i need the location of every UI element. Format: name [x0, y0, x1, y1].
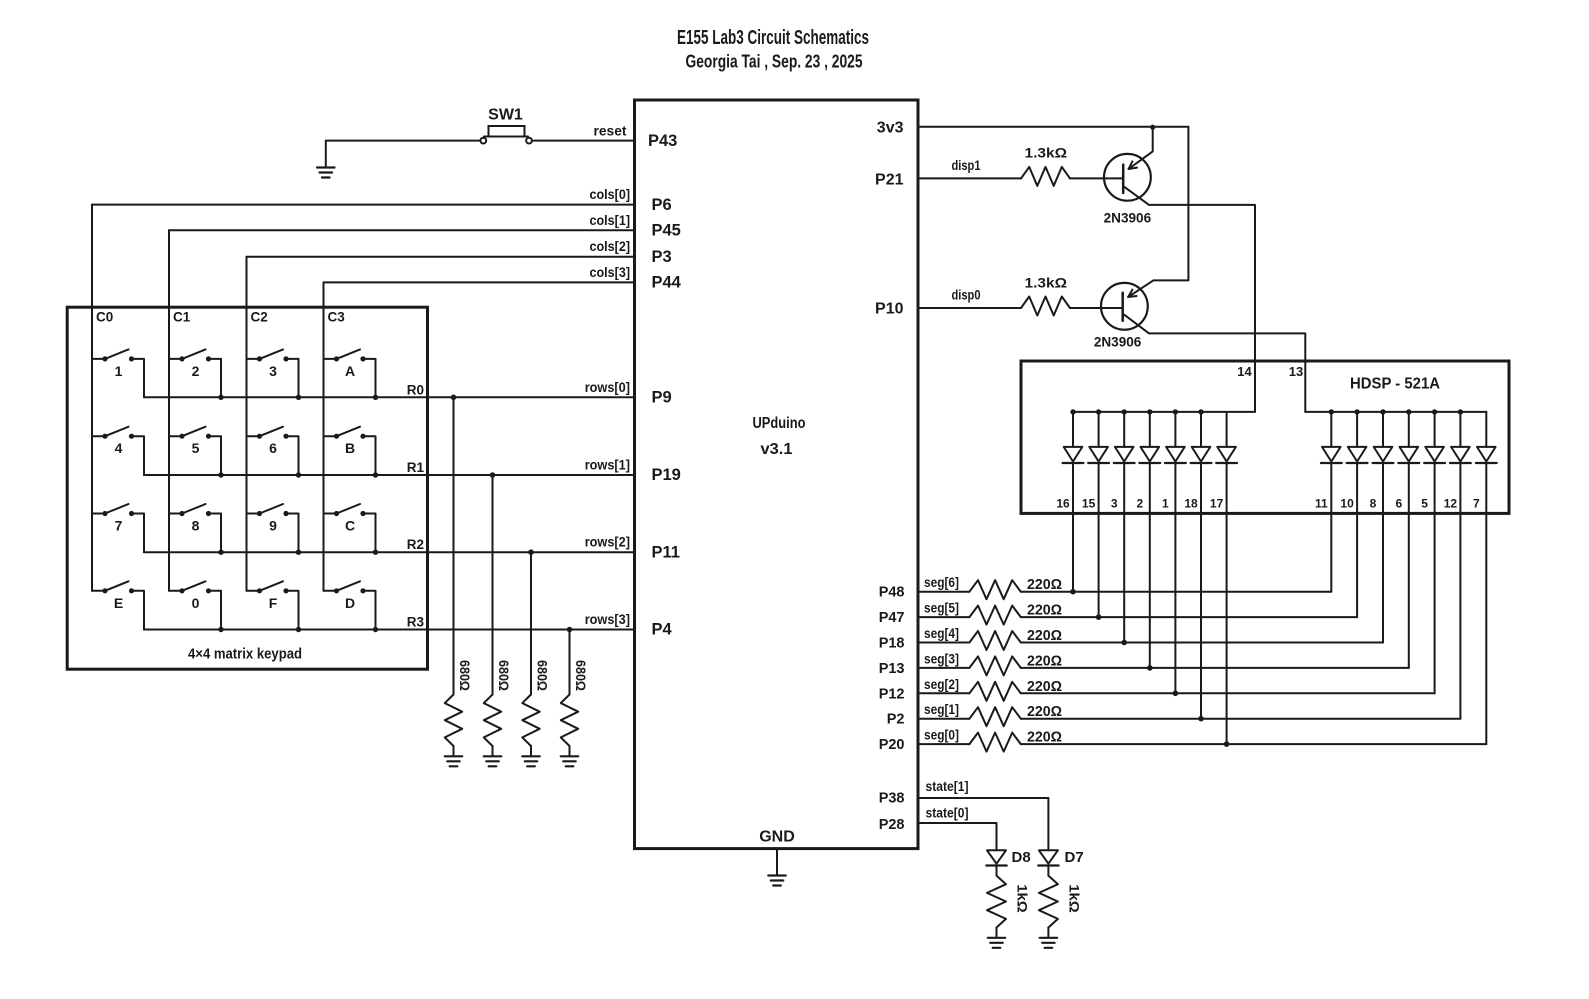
wire LED 3 cathode to seg[4] [1123, 463, 1125, 643]
Q2 emitter arrowhead [1128, 296, 1136, 297]
wire LED 1 cathode to seg[2] [1174, 463, 1176, 693]
junction right bus / LED 1 [1329, 409, 1334, 414]
junction rows[2] pulldown [528, 549, 534, 555]
wire seg[0] to HDSP [1021, 743, 1487, 745]
svg-text:680Ω: 680Ω [573, 660, 588, 691]
svg-text:6: 6 [1395, 497, 1402, 511]
svg-text:R2: R2 [407, 537, 424, 552]
junction right bus / LED 6 [1458, 409, 1463, 414]
svg-text:P43: P43 [648, 132, 677, 150]
svg-text:P13: P13 [879, 661, 905, 677]
wire P21 to R1 [918, 177, 1021, 179]
svg-text:cols[3]: cols[3] [590, 264, 631, 280]
junction left bus / LED 1 [1070, 409, 1075, 414]
LED 10 (right digit) [1347, 412, 1368, 463]
resistor 220Ω seg[4] [969, 631, 1020, 650]
resistor 220Ω seg[6] [969, 580, 1020, 599]
switch key 0 [169, 581, 224, 632]
wire rows[3] [144, 629, 635, 631]
wire LED 11 cathode to seg[6] [1330, 463, 1332, 592]
svg-text:680Ω: 680Ω [457, 660, 472, 691]
LED 5 (right digit) [1424, 412, 1445, 463]
wire LED 2 cathode to seg[3] [1149, 463, 1151, 668]
ground (1kΩ D8) [988, 928, 1006, 948]
svg-text:R1: R1 [407, 460, 425, 475]
svg-text:E155 Lab3 Circuit Schematics: E155 Lab3 Circuit Schematics [677, 27, 869, 49]
keypad box [67, 307, 427, 669]
svg-text:8: 8 [192, 518, 200, 534]
wire rows[0] [144, 396, 635, 398]
svg-text:P45: P45 [652, 222, 681, 240]
svg-text:9: 9 [269, 518, 277, 534]
svg-text:13: 13 [1289, 364, 1303, 379]
svg-text:seg[0]: seg[0] [924, 727, 959, 743]
LED 15 (left digit) [1088, 412, 1109, 463]
svg-text:P38: P38 [879, 791, 905, 807]
junction right bus / LED 4 [1406, 409, 1411, 414]
svg-text:HDSP - 521A: HDSP - 521A [1350, 376, 1440, 393]
svg-text:15: 15 [1082, 497, 1096, 511]
wire P2 to 220Ω [918, 718, 969, 720]
junction left bus / LED 4 [1147, 409, 1152, 414]
svg-text:UPduino: UPduino [753, 415, 806, 432]
wire reset left segment [326, 140, 481, 142]
LED 18 (left digit) [1191, 412, 1212, 463]
LED 7 (right digit) [1476, 412, 1497, 463]
svg-text:seg[2]: seg[2] [924, 676, 959, 692]
IC U1 UPduino v3.1 box [635, 100, 919, 849]
svg-text:seg[1]: seg[1] [924, 701, 959, 717]
wire LED 6 cathode to seg[3] [1408, 463, 1410, 668]
LED 11 (right digit) [1321, 412, 1342, 463]
svg-text:cols[0]: cols[0] [590, 186, 631, 202]
wire rows[3] to R680-4 [569, 630, 571, 695]
diode D7 [1038, 850, 1058, 865]
svg-text:11: 11 [1315, 497, 1328, 511]
svg-text:P2: P2 [887, 712, 905, 728]
switch key C [324, 504, 379, 555]
wire D8 to 1kΩ [996, 866, 998, 876]
svg-text:C2: C2 [251, 310, 268, 325]
resistor R2 1.3kΩ [1021, 297, 1070, 316]
wire seg[4] to HDSP [1021, 642, 1383, 644]
wire P13 to 220Ω [918, 667, 969, 669]
svg-text:D8: D8 [1012, 849, 1031, 866]
svg-text:D: D [345, 595, 355, 611]
svg-text:P18: P18 [879, 636, 905, 652]
resistor 220Ω seg[5] [969, 606, 1020, 625]
svg-text:seg[4]: seg[4] [924, 625, 959, 641]
switch key 2 [169, 349, 224, 400]
ground (reset) [317, 141, 335, 178]
ground (680Ω #2) [484, 746, 502, 766]
wire Q1 collector to HDSP pin 14 [1124, 187, 1255, 412]
svg-text:7: 7 [115, 518, 123, 534]
junction rows[3] pulldown [567, 627, 573, 633]
svg-text:disp0: disp0 [952, 287, 981, 303]
switch key A [324, 349, 379, 400]
LED 3 (left digit) [1114, 412, 1135, 463]
wire P10 to R2 [918, 307, 1021, 309]
wire R1 to Q1 base [1070, 177, 1123, 179]
LED 8 (right digit) [1373, 412, 1394, 463]
wire LED 5 cathode to seg[2] [1434, 463, 1436, 693]
svg-text:C: C [345, 518, 355, 534]
resistor 680Ω #1 [445, 695, 462, 747]
switch key 1 [92, 349, 144, 397]
svg-text:rows[2]: rows[2] [585, 534, 630, 550]
svg-text:SW1: SW1 [488, 107, 523, 124]
svg-text:680Ω: 680Ω [496, 660, 511, 691]
wire anode bus (left digit) [1073, 411, 1255, 413]
svg-text:seg[3]: seg[3] [924, 650, 959, 666]
LED 2 (left digit) [1139, 412, 1160, 463]
svg-text:P3: P3 [652, 248, 672, 266]
svg-text:0: 0 [192, 595, 200, 611]
svg-text:P44: P44 [652, 274, 682, 292]
wire rows[1] to R680-2 [492, 475, 494, 695]
wire P47 to 220Ω [918, 616, 969, 618]
svg-text:seg[6]: seg[6] [924, 574, 959, 590]
svg-text:P12: P12 [879, 686, 905, 702]
junction seg[6] / LED 16 [1070, 589, 1076, 595]
wire rows[0] to R680-1 [453, 397, 455, 694]
wire column C2 [246, 257, 248, 591]
svg-text:disp1: disp1 [952, 157, 981, 173]
svg-text:P48: P48 [879, 585, 905, 601]
svg-text:18: 18 [1184, 497, 1198, 511]
svg-text:R3: R3 [407, 615, 425, 630]
junction seg[2] / LED 1 [1173, 691, 1179, 697]
svg-text:C1: C1 [173, 310, 191, 325]
svg-text:P9: P9 [652, 389, 672, 407]
resistor 680Ω #2 [484, 695, 501, 747]
svg-text:1kΩ: 1kΩ [1015, 884, 1030, 913]
transistor Q1 2N3906 [1104, 154, 1151, 201]
svg-text:state[1]: state[1] [926, 778, 969, 794]
svg-text:E: E [114, 595, 123, 611]
svg-text:1: 1 [1162, 497, 1169, 511]
junction seg[4] / LED 3 [1121, 640, 1127, 646]
svg-text:17: 17 [1210, 497, 1224, 511]
wire rows[1] [144, 474, 635, 476]
diode D8 [986, 850, 1006, 865]
switch key B [324, 427, 379, 478]
wire state[1] [918, 798, 1048, 850]
junction seg[3] / LED 2 [1147, 665, 1153, 671]
wire LED 7 cathode to seg[0] [1485, 463, 1487, 744]
svg-text:5: 5 [192, 440, 200, 456]
wire cols[1] [169, 229, 635, 231]
svg-text:12: 12 [1444, 497, 1458, 511]
svg-text:5: 5 [1421, 497, 1428, 511]
wire LED 8 cathode to seg[4] [1382, 463, 1384, 643]
junction left bus / LED 6 [1198, 409, 1203, 414]
junction right bus / LED 3 [1380, 409, 1385, 414]
svg-text:rows[3]: rows[3] [585, 611, 630, 627]
wire seg[3] to HDSP [1021, 667, 1409, 669]
svg-text:P21: P21 [875, 171, 904, 188]
svg-text:2: 2 [192, 363, 200, 379]
resistor 680Ω #3 [522, 695, 539, 747]
wire D7 to 1kΩ [1047, 866, 1049, 876]
ground (680Ω #3) [522, 746, 540, 766]
svg-text:F: F [269, 595, 278, 611]
wire seg[1] to HDSP [1021, 718, 1461, 720]
ground (680Ω #1) [445, 746, 463, 766]
switch key 5 [169, 427, 224, 478]
resistor 220Ω seg[2] [969, 682, 1020, 701]
svg-text:14: 14 [1237, 364, 1252, 379]
wire column C3 [323, 282, 325, 590]
svg-text:B: B [345, 440, 355, 456]
svg-text:16: 16 [1056, 497, 1070, 511]
wire P18 to 220Ω [918, 642, 969, 644]
svg-text:10: 10 [1340, 497, 1354, 511]
LED 1 (left digit) [1165, 412, 1186, 463]
svg-text:680Ω: 680Ω [535, 660, 550, 691]
svg-text:1.3kΩ: 1.3kΩ [1025, 275, 1068, 291]
wire LED 10 cathode to seg[5] [1356, 463, 1358, 617]
wire state[0] [918, 823, 997, 850]
wire R2 to Q2 base [1070, 307, 1123, 309]
switch key 3 [247, 349, 302, 400]
wire seg[2] to HDSP [1021, 692, 1435, 694]
svg-text:4: 4 [115, 440, 123, 456]
wire P12 to 220Ω [918, 692, 969, 694]
svg-text:cols[2]: cols[2] [590, 238, 631, 254]
wire rows[2] to R680-3 [530, 552, 532, 694]
resistor 220Ω seg[3] [969, 656, 1020, 675]
wire cols[0] [92, 204, 635, 206]
svg-text:P20: P20 [879, 737, 905, 753]
wire 3v3 [918, 126, 1188, 128]
LED 12 (right digit) [1450, 412, 1471, 463]
LED 6 (right digit) [1398, 412, 1419, 463]
svg-text:1.3kΩ: 1.3kΩ [1025, 145, 1068, 161]
wire cols[2] [247, 256, 635, 258]
switch key 7 [92, 504, 144, 552]
transistor Q2 2N3906 [1101, 283, 1148, 330]
resistor R1 1.3kΩ [1021, 167, 1070, 186]
svg-text:2N3906: 2N3906 [1104, 210, 1152, 226]
svg-text:C3: C3 [328, 310, 346, 325]
svg-text:R0: R0 [407, 382, 424, 397]
switch key 6 [247, 427, 302, 478]
svg-text:cols[1]: cols[1] [590, 212, 631, 228]
wire anode bus (right digit) [1305, 411, 1486, 413]
svg-text:rows[1]: rows[1] [585, 457, 630, 473]
resistor 1kΩ (D7) [1039, 876, 1058, 928]
svg-text:v3.1: v3.1 [761, 441, 793, 458]
switch key E [92, 581, 144, 629]
junction seg[1] / LED 18 [1198, 716, 1204, 722]
ground (1kΩ D7) [1040, 928, 1058, 948]
svg-text:2: 2 [1136, 497, 1143, 511]
junction rows[0] pulldown [451, 395, 457, 401]
switch key D [324, 581, 379, 632]
wire LED 12 cathode to seg[1] [1459, 463, 1461, 719]
wire LED 18 cathode to seg[1] [1200, 463, 1202, 719]
junction left bus / LED 3 [1122, 409, 1127, 414]
svg-text:C0: C0 [96, 310, 113, 325]
resistor 1kΩ (D8) [987, 876, 1006, 928]
svg-text:1kΩ: 1kΩ [1066, 884, 1081, 913]
wire Q2 emitter to 3v3 [1128, 127, 1188, 297]
wire LED 16 cathode to seg[6] [1072, 463, 1074, 592]
svg-text:A: A [345, 363, 355, 379]
wire cols[3] [324, 281, 635, 283]
svg-text:P28: P28 [879, 817, 905, 833]
resistor 220Ω seg[1] [969, 707, 1020, 726]
svg-text:reset: reset [594, 123, 627, 139]
svg-text:P19: P19 [652, 466, 681, 484]
svg-text:P10: P10 [875, 301, 904, 318]
switch key 4 [92, 427, 144, 475]
junction left bus / LED 2 [1096, 409, 1101, 414]
svg-text:3v3: 3v3 [877, 119, 904, 136]
svg-text:rows[0]: rows[0] [585, 379, 630, 395]
resistor 220Ω seg[0] [969, 733, 1020, 752]
display U2 HDSP-521A box [1021, 361, 1509, 513]
wire Q1 emitter to 3v3 [1129, 127, 1153, 169]
svg-text:P4: P4 [652, 621, 673, 639]
LED 17 (left digit) [1216, 412, 1237, 463]
switch key F [247, 581, 302, 632]
svg-text:P11: P11 [652, 543, 680, 561]
svg-text:6: 6 [269, 440, 277, 456]
wire column C0 [91, 205, 93, 591]
svg-text:8: 8 [1370, 497, 1377, 511]
wire LED 15 cathode to seg[5] [1098, 463, 1100, 617]
svg-text:P6: P6 [652, 196, 672, 214]
wire P20 to 220Ω [918, 743, 969, 745]
wire LED 17 cathode to seg[0] [1226, 463, 1228, 744]
svg-text:D7: D7 [1065, 849, 1084, 866]
wire seg[6] to HDSP [1021, 591, 1332, 593]
svg-text:7: 7 [1473, 497, 1480, 511]
wire seg[5] to HDSP [1021, 616, 1357, 618]
svg-text:1: 1 [115, 363, 123, 379]
junction seg[5] / LED 15 [1096, 614, 1102, 620]
junction left bus / LED 5 [1173, 409, 1178, 414]
resistor 680Ω #4 [561, 695, 578, 747]
junction right bus / LED 2 [1354, 409, 1359, 414]
junction rows[1] pulldown [490, 472, 496, 478]
svg-text:Georgia Tai , Sep. 23 , 2025: Georgia Tai , Sep. 23 , 2025 [686, 52, 863, 72]
svg-text:P47: P47 [879, 610, 905, 626]
junction 3v3 / Q1 emitter [1150, 125, 1155, 130]
svg-text:4×4 matrix keypad: 4×4 matrix keypad [188, 646, 302, 663]
switch key 9 [247, 504, 302, 555]
junction right bus / LED 5 [1432, 409, 1437, 414]
switch SW1 [480, 126, 531, 144]
wire reset to P43 [532, 140, 635, 142]
ground (680Ω #4) [561, 746, 579, 766]
svg-text:3: 3 [1111, 497, 1118, 511]
wire column C1 [168, 230, 170, 591]
svg-text:2N3906: 2N3906 [1094, 334, 1142, 350]
svg-text:state[0]: state[0] [926, 804, 969, 820]
ground (UPduino GND) [768, 849, 786, 886]
junction seg[0] / LED 17 [1224, 741, 1230, 747]
svg-text:seg[5]: seg[5] [924, 600, 959, 616]
svg-text:3: 3 [269, 363, 277, 379]
wire rows[2] [144, 551, 635, 553]
LED 16 (left digit) [1063, 412, 1084, 463]
wire P48 to 220Ω [918, 591, 969, 593]
svg-text:GND: GND [759, 829, 795, 846]
wire Q2 collector to HDSP pin 13 [1124, 315, 1305, 412]
switch key 8 [169, 504, 224, 555]
Q1 emitter arrowhead [1129, 168, 1137, 169]
